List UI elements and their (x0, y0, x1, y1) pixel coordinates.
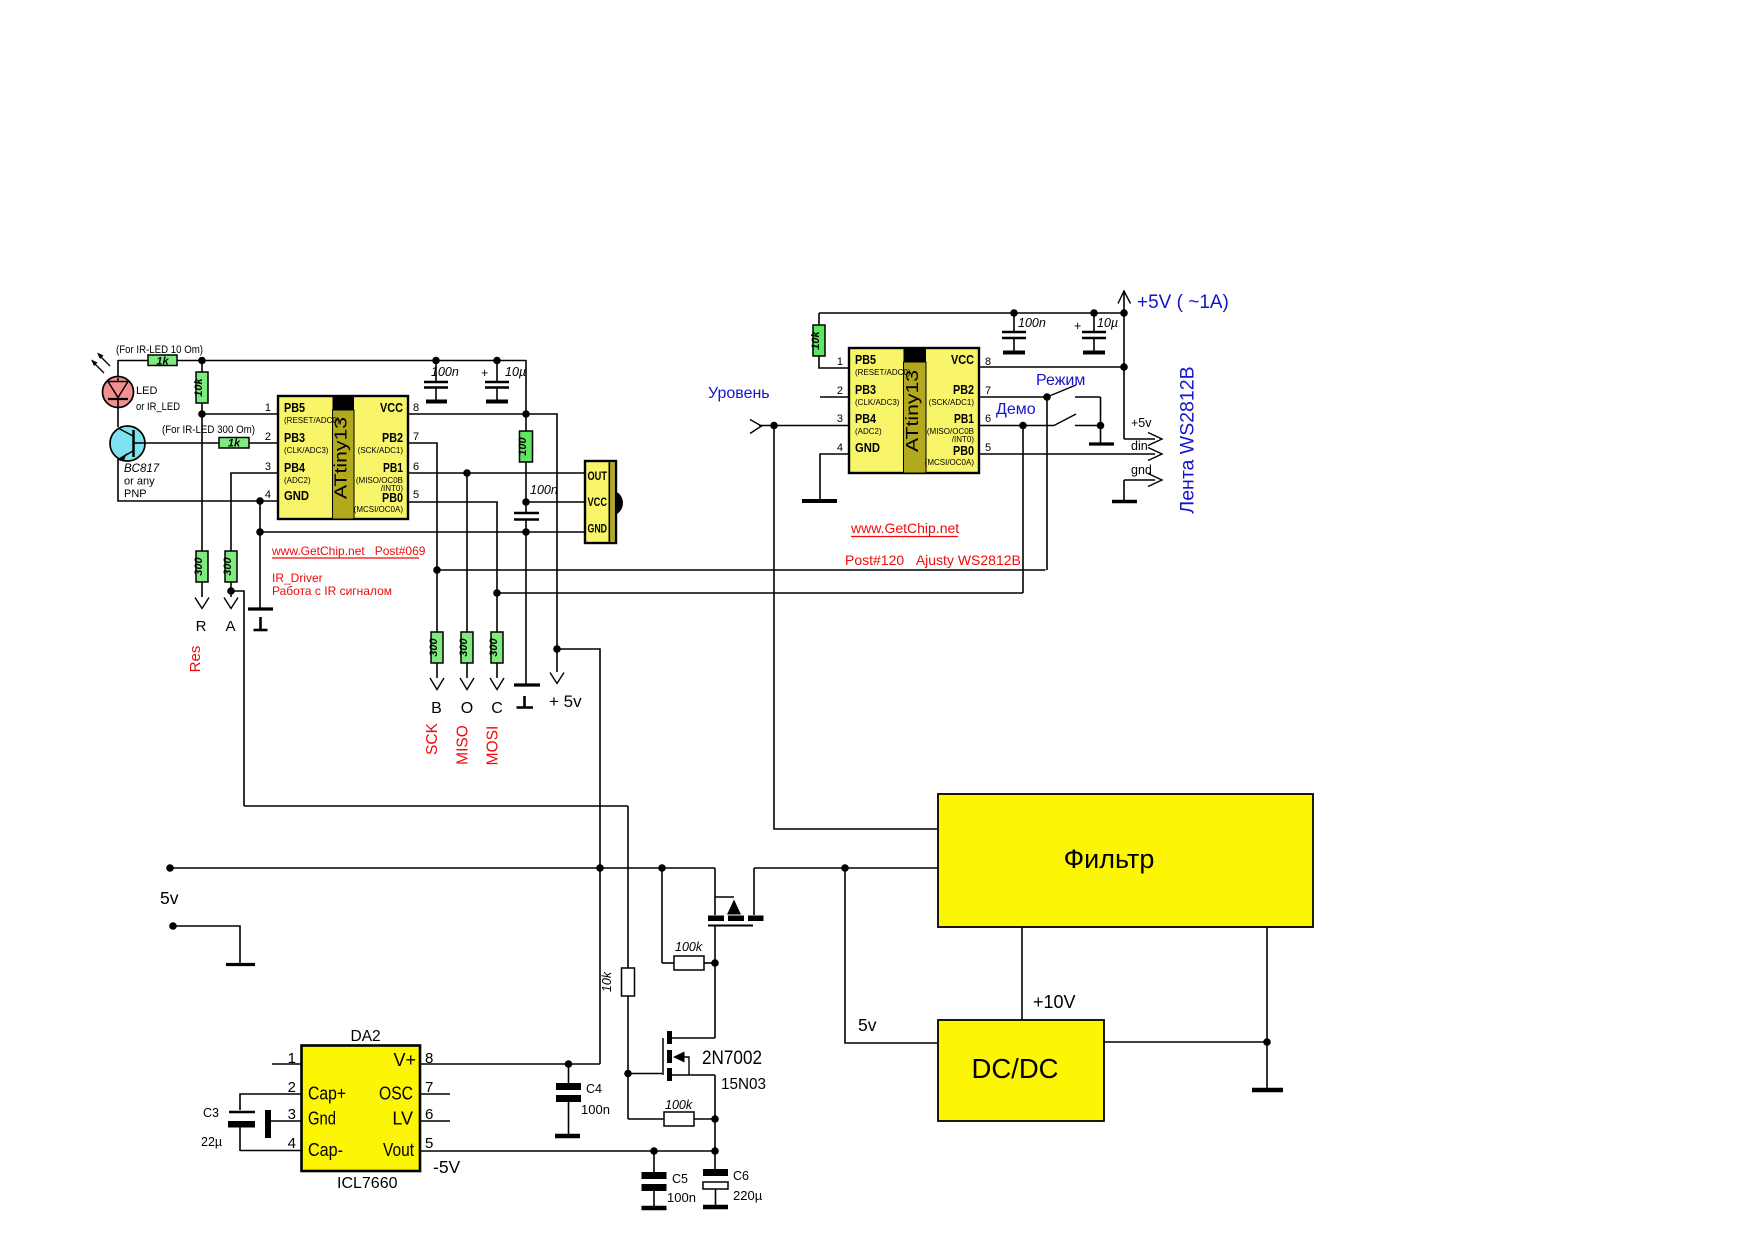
wire 300A to node (230, 582, 232, 597)
pin numbers U1 (265, 402, 419, 501)
svg-text:(CLK/ADC3): (CLK/ADC3) (284, 446, 329, 455)
svg-text:5: 5 (985, 442, 991, 454)
svg-text:Gnd: Gnd (308, 1109, 336, 1129)
svg-text:220µ: 220µ (733, 1188, 763, 1203)
svg-text:PB0: PB0 (382, 490, 403, 505)
svg-text:+5v: +5v (1131, 416, 1152, 430)
ground bar left (248, 607, 273, 610)
svg-text:(For IR-LED 10 Om): (For IR-LED 10 Om) (116, 344, 203, 356)
box DC/DC (938, 1020, 1104, 1121)
wire pin2 Cap+ (240, 1094, 301, 1110)
svg-text:2: 2 (837, 385, 843, 397)
svg-text:BC817: BC817 (124, 463, 160, 475)
node receiver VCC (522, 498, 530, 506)
switch Rezhim (1047, 385, 1101, 397)
svg-text:300: 300 (222, 556, 234, 575)
node Demo (1019, 422, 1027, 430)
svg-text:(ADC2): (ADC2) (855, 427, 882, 436)
wire line PB0 cross (497, 592, 1023, 594)
capacitor C3 22u (201, 1106, 255, 1151)
svg-text:B: B (431, 700, 442, 717)
wire +5v to bottom (557, 649, 600, 1064)
node VCC (522, 410, 530, 418)
capacitor C5 100n (642, 1151, 696, 1208)
capacitor C6 220u (703, 1169, 763, 1207)
wire GND drop (259, 501, 261, 532)
svg-text:www.GetChip.net: www.GetChip.net (850, 520, 959, 536)
svg-text:4: 4 (837, 442, 843, 454)
svg-text:OUT: OUT (588, 471, 608, 483)
svg-text:IR_Driver: IR_Driver (272, 571, 323, 585)
svg-text:100: 100 (517, 436, 529, 455)
resistor 1k base (219, 438, 249, 450)
svg-text:C: C (491, 700, 503, 717)
wire pin1 DA2 stub (272, 1063, 301, 1065)
wire pin4 GND right (820, 454, 849, 499)
wire VCC vertical (1123, 313, 1125, 439)
arrow A down (224, 598, 238, 609)
node dcdc out (1263, 1038, 1271, 1046)
node switch common (1097, 422, 1105, 430)
arrow +5V up (1118, 291, 1131, 313)
svg-text:gnd: gnd (1131, 463, 1152, 477)
node PB5 junction (198, 410, 206, 418)
svg-text:Res: Res (187, 646, 204, 673)
ground bar switches (1089, 442, 1114, 445)
svg-text:3: 3 (265, 461, 271, 473)
node gate 15N03 (711, 959, 719, 967)
capacitor 10u right (1074, 313, 1118, 353)
resistor 300 A (222, 551, 237, 582)
wire pin3 PB4 input (759, 425, 849, 427)
resistor 100k gate-source (662, 868, 715, 970)
capacitor 100n right (1002, 313, 1046, 353)
node DCDC 5v branch (841, 864, 849, 872)
svg-text:8: 8 (413, 402, 419, 414)
svg-text:C6: C6 (733, 1169, 749, 1183)
wire cap ground stub (525, 532, 527, 685)
svg-text:Post#120 Ajusty WS2812B: Post#120 Ajusty WS2812B (845, 552, 1021, 568)
svg-text:OSC: OSC (379, 1084, 413, 1104)
box Filter (938, 794, 1313, 927)
pin numbers U3 (837, 356, 991, 454)
wire +5v strip stub (1124, 438, 1155, 440)
svg-text:1k: 1k (228, 438, 241, 450)
transistor Q1 BC817 (110, 426, 145, 462)
wire Vout -5V line (420, 1150, 715, 1152)
wire Uroven to Filter (774, 426, 938, 830)
svg-text:VCC: VCC (951, 352, 975, 367)
svg-text:A: A (225, 618, 235, 635)
node rail corner (1120, 309, 1128, 317)
svg-text:GND: GND (855, 440, 880, 455)
node 2N7002 gate (624, 1070, 632, 1078)
svg-text:(MCSI/OC0A): (MCSI/OC0A) (354, 505, 404, 514)
wire gnd strip stub (1124, 479, 1155, 481)
wire pin3 PB4 (231, 473, 278, 551)
node rail 10u (1090, 309, 1098, 317)
svg-text:GND: GND (284, 488, 309, 503)
wire Demo drop (1022, 426, 1024, 594)
svg-text:PB4: PB4 (284, 460, 306, 475)
svg-text:10µ: 10µ (1097, 316, 1118, 330)
wire Rezhim drop (1046, 397, 1048, 570)
node O (463, 469, 471, 477)
svg-text:2N7002: 2N7002 (702, 1048, 762, 1069)
LED D1 (103, 360, 134, 427)
arrow input Uroven (750, 420, 762, 434)
svg-text:C5: C5 (672, 1172, 688, 1186)
node junction 1k/10k (198, 357, 206, 365)
svg-text:-5V: -5V (433, 1157, 461, 1177)
wire pin6 LV stub (420, 1120, 450, 1122)
svg-text:Демо: Демо (996, 401, 1036, 418)
wire pin4 Cap- (240, 1150, 301, 1152)
LED emission arrows (91, 353, 110, 374)
svg-text:SCK: SCK (424, 722, 441, 755)
svg-text:Режим: Режим (1036, 372, 1085, 389)
wire GND net line (260, 531, 585, 533)
node B (433, 566, 441, 574)
ground bar right (1252, 1088, 1283, 1093)
wire filter right ground (1266, 927, 1268, 1089)
svg-text:1k: 1k (156, 356, 169, 368)
svg-text:PB3: PB3 (855, 382, 876, 397)
svg-text:(CLK/ADC3): (CLK/ADC3) (855, 398, 900, 407)
svg-text:O: O (461, 700, 473, 717)
node C (493, 589, 501, 597)
node 5v rail end (166, 864, 174, 872)
node C6 (711, 1147, 719, 1155)
svg-text:ATtiny13: ATtiny13 (902, 370, 922, 452)
resistor 10k gate pulldown (600, 806, 635, 1119)
ground bar mid (514, 683, 540, 686)
node Uroven branch (770, 422, 778, 430)
wire +5V rail right (819, 312, 1124, 314)
svg-text:VCC: VCC (588, 497, 608, 509)
wire pin7 PB2 (408, 443, 437, 570)
wire pin7 PB2 (979, 396, 1047, 398)
svg-text:PB4: PB4 (855, 411, 877, 426)
svg-text:1: 1 (265, 402, 271, 414)
wire pin3 Gnd (268, 1120, 301, 1122)
svg-text:5: 5 (425, 1135, 433, 1152)
wire 1k to pin2 (249, 442, 278, 444)
resistor 10k pullup (193, 360, 208, 414)
arrow +5v down (550, 673, 564, 684)
svg-text:PB3: PB3 (284, 430, 305, 445)
svg-text:PB0: PB0 (953, 443, 974, 458)
svg-text:(RESET/ADC0): (RESET/ADC0) (855, 368, 911, 377)
svg-text:R: R (196, 618, 207, 635)
svg-text:PB2: PB2 (382, 430, 403, 445)
ground bar strip (1112, 500, 1137, 503)
svg-text:DC/DC: DC/DC (971, 1053, 1058, 1084)
svg-text:100n: 100n (1018, 316, 1046, 330)
svg-text:(MCSI/OC0A): (MCSI/OC0A) (925, 458, 975, 467)
capacitor 100n left (424, 357, 459, 402)
wire line PB2 cross (437, 569, 1046, 571)
node VCC right (1120, 363, 1128, 371)
svg-text:or any: or any (124, 476, 155, 488)
wire pin5 PB0 din (979, 453, 1155, 455)
wire +10V (1021, 927, 1023, 1020)
svg-text:C4: C4 (586, 1082, 602, 1096)
svg-text:Фильтр: Фильтр (1064, 844, 1155, 874)
svg-text:MISO: MISO (455, 725, 472, 765)
svg-text:PB5: PB5 (284, 400, 305, 415)
svg-text:300: 300 (193, 556, 205, 575)
svg-text:PB5: PB5 (855, 352, 876, 367)
svg-text:1: 1 (837, 356, 843, 368)
resistor 300 B (428, 570, 443, 678)
svg-text:Vout: Vout (383, 1140, 414, 1160)
node GND junction (256, 497, 264, 505)
wire pin1 PB5 (202, 413, 278, 415)
svg-text:100n: 100n (581, 1102, 610, 1117)
svg-text:100n: 100n (431, 365, 459, 379)
svg-text:Работа с IR сигналом: Работа с IR сигналом (272, 584, 392, 598)
svg-text:6: 6 (413, 461, 419, 473)
pin numbers DA2 (288, 1050, 434, 1152)
wire gnd drop (1123, 480, 1125, 500)
svg-text:5v: 5v (160, 888, 179, 908)
ground bar DA2 vertical (265, 1110, 271, 1138)
resistor 300 O (458, 473, 473, 678)
arrow C down (490, 678, 504, 690)
wire ground stub bottom left (169, 922, 255, 964)
capacitor 100n receiver (514, 483, 558, 532)
svg-text:ICL7660: ICL7660 (337, 1175, 398, 1192)
svg-text:7: 7 (985, 385, 991, 397)
node Rezhim (1043, 393, 1051, 401)
wire A branch down (231, 591, 244, 806)
svg-text:100n: 100n (530, 483, 558, 497)
wire dcdc out (1104, 1041, 1267, 1043)
svg-text:LV: LV (392, 1109, 413, 1129)
wire pin2 PB3 stub (820, 396, 849, 398)
arrow O down (460, 678, 474, 690)
node 100k branch (658, 864, 666, 872)
svg-text:Лента WS2812B: Лента WS2812B (1177, 366, 1199, 513)
svg-text:PB1: PB1 (954, 411, 974, 426)
svg-text:300: 300 (428, 637, 440, 656)
wire pin6 PB1 (979, 425, 1054, 427)
wire pin8 V+ (420, 1063, 600, 1065)
svg-text:DA2: DA2 (351, 1028, 381, 1045)
resistor 300 C (488, 593, 503, 678)
svg-text:10µ: 10µ (505, 365, 526, 379)
svg-text:www.GetChip.net Post#069: www.GetChip.net Post#069 (271, 544, 426, 558)
svg-text:4: 4 (265, 489, 271, 501)
svg-text:din: din (1131, 439, 1148, 453)
svg-text:100k: 100k (665, 1098, 693, 1112)
wire base PB3 (134, 442, 220, 444)
svg-text:(For IR-LED 300 Om): (For IR-LED 300 Om) (162, 424, 255, 436)
svg-text:+: + (1074, 319, 1081, 333)
node GND net (256, 528, 264, 536)
wire +5V top rail left (118, 360, 148, 362)
wire ground stub (259, 532, 261, 608)
svg-text:Уровень: Уровень (708, 385, 770, 402)
resistor 10k reset right (810, 313, 849, 368)
svg-text:3: 3 (837, 413, 843, 425)
node 5v/DA2 branch (596, 864, 604, 872)
ground bar U3 (802, 499, 837, 503)
wire pin8 VCC right (979, 366, 1124, 368)
resistor 1k (For IR-LED 10 Om) (148, 355, 177, 368)
svg-text:2: 2 (265, 431, 271, 443)
svg-text:Cap-: Cap- (308, 1140, 343, 1160)
wire emitter to GND pin4 (118, 459, 278, 501)
capacitor C4 100n (555, 1064, 610, 1136)
switch Demo (1054, 414, 1101, 426)
svg-text:15N03: 15N03 (721, 1076, 766, 1093)
arrow gnd (1148, 474, 1162, 487)
wire pin5 PB0 (408, 502, 497, 593)
svg-text:10k: 10k (810, 330, 822, 349)
wire top rail to caps (177, 360, 526, 362)
svg-text:6: 6 (985, 413, 991, 425)
wire 5v DCDC drop (845, 868, 938, 1043)
ground glyph (254, 617, 268, 630)
svg-text:22µ: 22µ (201, 1135, 222, 1149)
IR receiver U2 (585, 461, 623, 543)
svg-text:MOSI: MOSI (485, 726, 502, 766)
svg-text:C3: C3 (203, 1106, 219, 1120)
wire gate to 2N7002 drain (714, 963, 716, 1038)
svg-text:300: 300 (458, 637, 470, 656)
arrow din (1148, 448, 1162, 461)
svg-text:+ 5v: + 5v (549, 692, 582, 711)
resistor 300 R (193, 414, 208, 597)
svg-text:+: + (481, 366, 488, 380)
IC U1 ATtiny13 (278, 396, 408, 519)
node C4 (565, 1060, 573, 1068)
svg-text:10k: 10k (600, 971, 614, 992)
arrow +5v strip (1148, 433, 1162, 446)
wire pin8 VCC (408, 413, 526, 415)
svg-text:(SCK/ADC1): (SCK/ADC1) (358, 446, 404, 455)
node +5v pick (553, 645, 561, 653)
svg-text:100n: 100n (667, 1190, 696, 1205)
svg-text:+5V ( ~1A): +5V ( ~1A) (1137, 292, 1229, 313)
svg-text:VCC: VCC (380, 400, 404, 415)
label www.GetChip.net Post#069 (271, 544, 426, 558)
svg-text:LED: LED (136, 385, 157, 397)
svg-text:PB2: PB2 (953, 382, 974, 397)
node rail 100n (1010, 309, 1018, 317)
svg-text:PNP: PNP (124, 488, 147, 500)
node A (227, 587, 235, 595)
arrow R down (195, 598, 209, 609)
wire pin7 OSC stub (420, 1093, 450, 1095)
svg-text:+10V: +10V (1033, 992, 1076, 1012)
svg-text:100k: 100k (675, 940, 703, 954)
wire A line horizontal (244, 805, 628, 807)
svg-text:300: 300 (488, 637, 500, 656)
resistor 100 (517, 414, 533, 502)
node GND cap (522, 528, 530, 536)
ground glyph mid (517, 696, 534, 708)
svg-text:5v: 5v (858, 1015, 877, 1035)
svg-text:PB1: PB1 (383, 460, 403, 475)
node C5 (650, 1147, 658, 1155)
IC DA2 ICL7660 (302, 1028, 421, 1192)
transistor Q3 2N7002 (628, 1031, 715, 1169)
IC U3 ATtiny13 right (849, 348, 979, 473)
svg-text:V+: V+ (393, 1050, 416, 1070)
svg-text:GND: GND (588, 524, 608, 536)
label www.GetChip.net right (850, 520, 959, 537)
arrow B down (430, 678, 444, 690)
wire rail corner down (525, 360, 527, 414)
svg-text:(RESET/ADC0): (RESET/ADC0) (284, 416, 340, 425)
node source/100k (711, 1115, 719, 1123)
svg-text:ATtiny13: ATtiny13 (331, 417, 351, 499)
svg-text:10k: 10k (193, 377, 205, 396)
resistor 100k gate2 (628, 1098, 715, 1126)
wire pin6 PB1 to receiver OUT (408, 472, 585, 474)
capacitor 10u left (481, 357, 526, 402)
svg-text:4: 4 (288, 1135, 296, 1152)
wire +5v arrow stub (556, 649, 558, 672)
wire receiver VCC (526, 501, 585, 503)
transistor Q2 15N03 PMOS switch (708, 868, 764, 963)
wire 5v rail to filter (754, 867, 938, 869)
wire switch common (1100, 397, 1102, 443)
svg-text:Cap+: Cap+ (308, 1084, 346, 1104)
svg-text:7: 7 (413, 431, 419, 443)
svg-text:or IR_LED: or IR_LED (136, 401, 180, 413)
wire VCC corner to +5v pick (526, 414, 557, 649)
svg-text:(ADC2): (ADC2) (284, 476, 311, 485)
svg-text:(SCK/ADC1): (SCK/ADC1) (929, 398, 975, 407)
svg-text:5: 5 (413, 489, 419, 501)
wire 5v rail bottom left (170, 867, 715, 869)
